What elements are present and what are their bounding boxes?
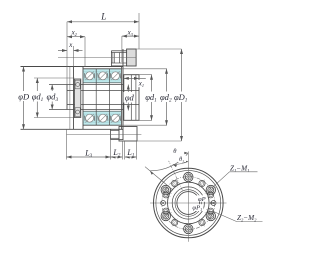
svg-text:φP: φP <box>198 196 206 203</box>
svg-text:φd: φd <box>125 93 135 103</box>
svg-text:L: L <box>100 11 106 21</box>
svg-text:φD: φD <box>18 92 30 102</box>
